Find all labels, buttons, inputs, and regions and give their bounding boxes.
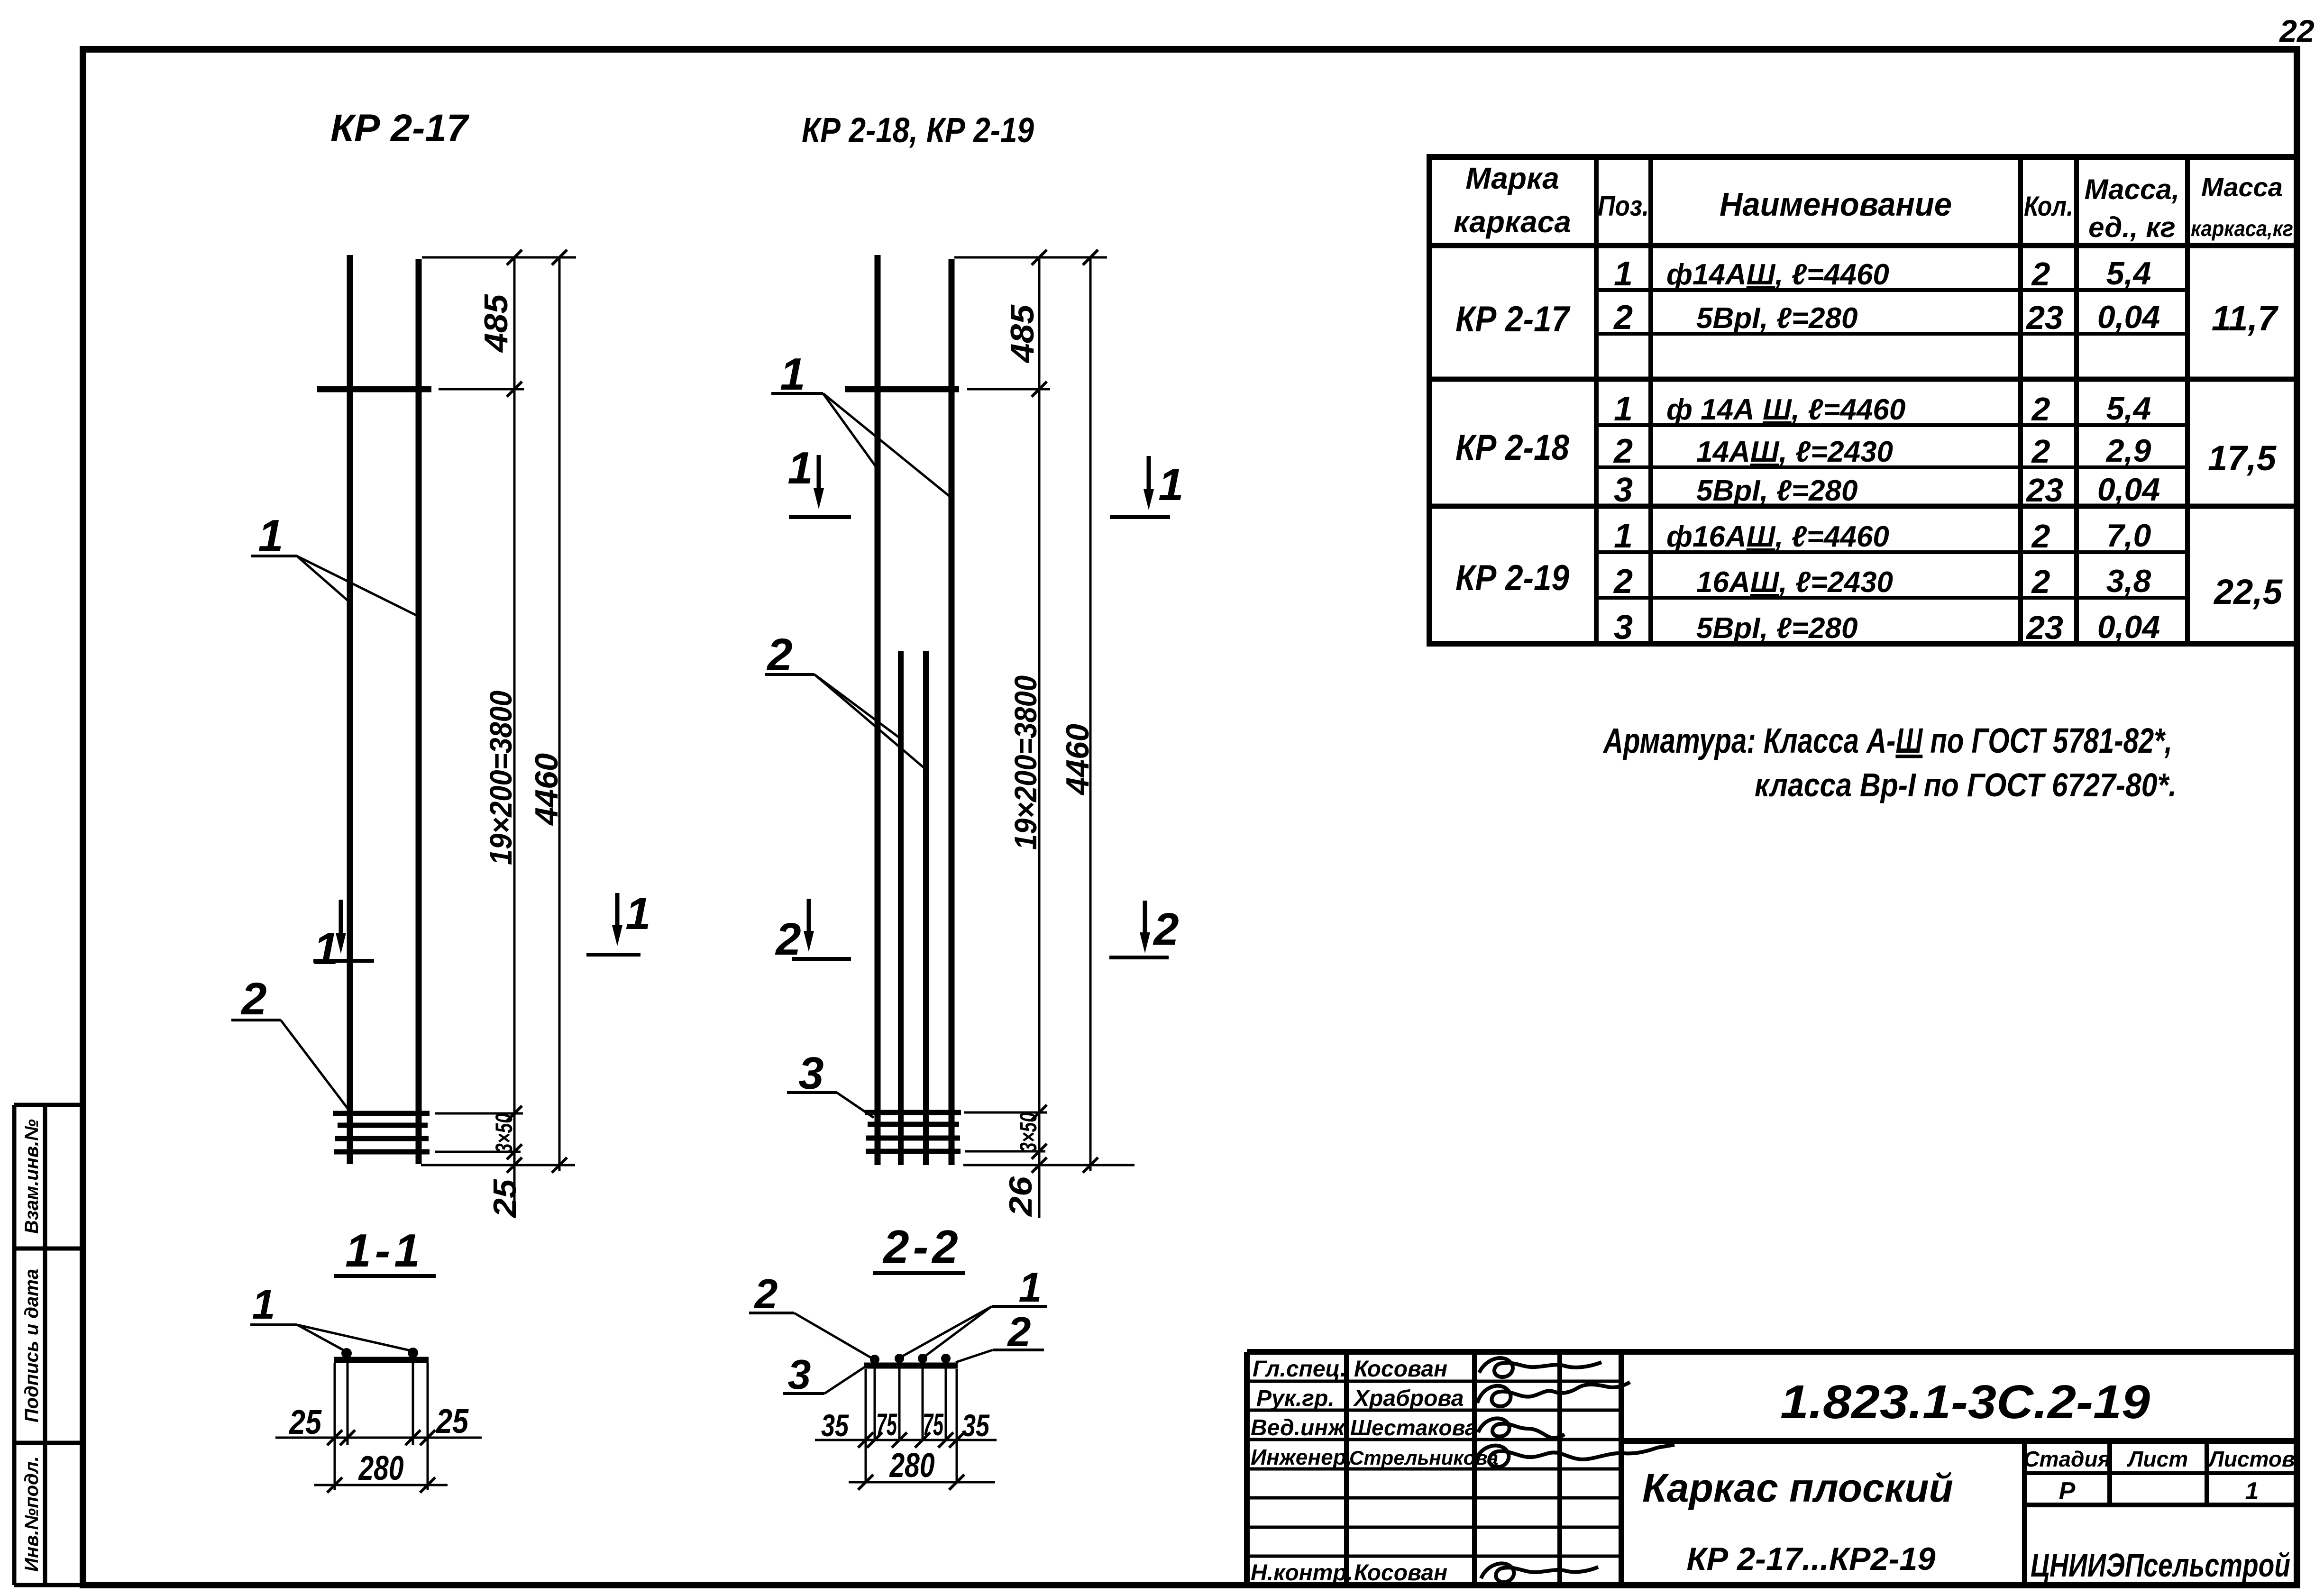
section 1-1 leader 1	[250, 1281, 412, 1352]
bottom cross wires pos2	[333, 1113, 430, 1152]
svg-text:ф16АШ, ℓ=4460: ф16АШ, ℓ=4460	[1666, 520, 1889, 553]
svg-text:0,04: 0,04	[2097, 299, 2160, 335]
section mark 1 right	[586, 888, 651, 955]
svg-text:1: 1	[258, 510, 283, 561]
label 1-1	[334, 1224, 436, 1276]
svg-text:3×50: 3×50	[1015, 1112, 1042, 1152]
svg-text:1: 1	[780, 349, 805, 400]
svg-text:КР 2-17...КР2-19: КР 2-17...КР2-19	[1687, 1541, 1936, 1577]
table headers	[1454, 161, 2293, 243]
svg-text:3: 3	[788, 1351, 811, 1398]
section 2-2 dim line 280	[849, 1447, 995, 1490]
leader 2	[231, 974, 352, 1114]
section mark 2 left	[775, 899, 851, 965]
section 2-2 cross wire	[864, 1363, 958, 1369]
svg-text:2: 2	[1613, 432, 1633, 470]
svg-text:2-2: 2-2	[882, 1221, 962, 1273]
svg-text:ед., кг: ед., кг	[2088, 211, 2176, 243]
extension lines	[954, 257, 1135, 1165]
section 2-2 leader 2 top left	[749, 1270, 872, 1358]
svg-text:ЦНИИЭПсельстрой: ЦНИИЭПсельстрой	[2031, 1547, 2290, 1584]
section mark 1 left	[787, 443, 851, 517]
svg-text:2: 2	[1613, 563, 1633, 601]
top cross wire at 485	[317, 386, 431, 392]
svg-text:Косован: Косован	[1354, 1357, 1447, 1382]
svg-text:2: 2	[2031, 391, 2050, 428]
svg-text:5,4: 5,4	[2106, 255, 2151, 292]
svg-text:2: 2	[1153, 904, 1179, 955]
svg-text:0,04: 0,04	[2097, 609, 2160, 645]
svg-text:Р: Р	[2059, 1477, 2076, 1505]
dimension line 2 overall	[1089, 257, 1092, 1171]
svg-text:19×200=3800: 19×200=3800	[1008, 675, 1043, 850]
svg-text:каркаса,кг: каркаса,кг	[2191, 216, 2293, 241]
svg-text:25: 25	[435, 1403, 469, 1440]
svg-text:25: 25	[487, 1179, 523, 1218]
section 1-1 dim line 280	[314, 1449, 448, 1493]
rebar pos1 right bar	[949, 259, 955, 1165]
svg-text:Взам.инв.№: Взам.инв.№	[21, 1119, 42, 1234]
svg-text:Шестакова: Шестакова	[1350, 1415, 1477, 1440]
svg-text:4460: 4460	[1060, 724, 1096, 796]
svg-text:2: 2	[2031, 518, 2050, 555]
section 2-2 leader 2 right	[956, 1308, 1044, 1362]
svg-text:КР 2-18, КР 2-19: КР 2-18, КР 2-19	[802, 110, 1034, 150]
svg-text:5,4: 5,4	[2106, 391, 2151, 427]
svg-text:ф 14А Ш, ℓ=4460: ф 14А Ш, ℓ=4460	[1666, 393, 1905, 426]
dim text 26	[1003, 1176, 1039, 1218]
svg-text:класса Вр-I по ГОСТ 6727-80*.: класса Вр-I по ГОСТ 6727-80*.	[1755, 766, 2177, 803]
mark KP2-17 block	[1455, 255, 2279, 339]
svg-text:3,8: 3,8	[2106, 563, 2151, 599]
leader 3	[787, 1048, 874, 1118]
dimension line 2 overall	[558, 257, 561, 1171]
section 1-1 bar dots	[341, 1348, 418, 1358]
stamp row ved.inzh	[1251, 1415, 1565, 1440]
mark KP2-19 block	[1455, 517, 2283, 647]
svg-text:Марка: Марка	[1465, 161, 1559, 195]
svg-text:35: 35	[821, 1408, 849, 1443]
svg-text:19×200=3800: 19×200=3800	[483, 691, 518, 865]
svg-text:1: 1	[2245, 1477, 2259, 1505]
svg-text:Масса: Масса	[2201, 172, 2283, 202]
svg-text:Косован: Косован	[1354, 1560, 1447, 1586]
dim text 3x50	[491, 1113, 517, 1153]
svg-text:ф14АШ, ℓ=4460: ф14АШ, ℓ=4460	[1666, 258, 1889, 291]
svg-text:1: 1	[1019, 1264, 1042, 1311]
svg-text:каркаса: каркаса	[1454, 205, 1571, 239]
dim text 3x50	[1015, 1112, 1042, 1152]
svg-text:Гл.спец.: Гл.спец.	[1253, 1357, 1346, 1382]
bottom cross wires pos3	[865, 1112, 961, 1151]
title block grid	[1247, 1352, 2297, 1585]
svg-text:1: 1	[252, 1281, 275, 1328]
document number	[1780, 1376, 2150, 1429]
section 1-1 cross wire	[334, 1357, 429, 1363]
dim text 25	[487, 1179, 523, 1218]
svg-text:Храброва: Храброва	[1353, 1386, 1464, 1411]
svg-text:1: 1	[1614, 255, 1633, 293]
svg-text:485: 485	[1004, 304, 1041, 364]
page number 22	[2278, 13, 2315, 48]
section 1-1 dim line 25/25	[275, 1403, 482, 1445]
svg-text:5ВрI, ℓ=280: 5ВрI, ℓ=280	[1696, 302, 1857, 335]
svg-text:2,9: 2,9	[2105, 433, 2151, 469]
svg-text:5ВрI, ℓ=280: 5ВрI, ℓ=280	[1696, 474, 1857, 507]
svg-text:Н.контр.: Н.контр.	[1251, 1560, 1353, 1586]
section 2-2 leader 3	[783, 1351, 866, 1398]
svg-text:1.823.1-3С.2-19: 1.823.1-3С.2-19	[1780, 1376, 2150, 1429]
svg-text:2: 2	[1007, 1308, 1031, 1355]
svg-text:7,0: 7,0	[2106, 518, 2151, 554]
svg-text:Стадия: Стадия	[2023, 1447, 2110, 1471]
svg-text:17,5: 17,5	[2208, 438, 2277, 478]
section 2-2 bar dots	[870, 1354, 951, 1364]
dimension ticks	[507, 250, 567, 1173]
left margin strip	[14, 1105, 83, 1585]
extension lines	[421, 257, 576, 1165]
svg-text:35: 35	[962, 1408, 990, 1443]
dimension line 1	[513, 257, 516, 1218]
svg-text:Лист: Лист	[2127, 1447, 2188, 1471]
dim text 4460	[529, 753, 565, 826]
svg-text:3: 3	[798, 1048, 823, 1099]
rebar pos1 left bar	[875, 255, 881, 1165]
svg-text:2: 2	[775, 914, 801, 965]
rebar pos1 left bar	[347, 255, 353, 1164]
svg-text:5ВрI, ℓ=280: 5ВрI, ℓ=280	[1696, 612, 1857, 645]
dim text 485	[477, 294, 514, 353]
svg-text:22,5: 22,5	[2213, 572, 2283, 611]
leader 2	[765, 629, 927, 770]
svg-text:280: 280	[358, 1449, 404, 1487]
section 2-2 extension lines	[866, 1365, 957, 1482]
svg-text:КР 2-17: КР 2-17	[1455, 299, 1571, 339]
stamp row n.kontr	[1251, 1560, 1598, 1586]
leader 1	[251, 510, 416, 615]
svg-text:2: 2	[1613, 299, 1633, 337]
svg-text:2: 2	[754, 1270, 778, 1317]
svg-text:КР 2-18: КР 2-18	[1455, 428, 1570, 468]
svg-text:14АШ, ℓ=2430: 14АШ, ℓ=2430	[1696, 436, 1893, 468]
svg-text:3: 3	[1614, 471, 1633, 509]
svg-text:1: 1	[1614, 390, 1633, 428]
svg-text:1: 1	[625, 888, 650, 939]
stadia list listov	[2023, 1447, 2295, 1505]
svg-text:11,7: 11,7	[2212, 299, 2279, 338]
dim text 19x200=3800	[1008, 675, 1043, 850]
stamp row gl.spec	[1253, 1357, 1601, 1382]
svg-text:23: 23	[2025, 299, 2063, 336]
svg-text:Поз.: Поз.	[1598, 190, 1649, 222]
svg-text:КР 2-17: КР 2-17	[330, 107, 469, 150]
svg-text:3×50: 3×50	[491, 1113, 517, 1153]
svg-text:Каркас плоский: Каркас плоский	[1642, 1466, 1953, 1510]
section mark 1 right	[1110, 456, 1184, 517]
svg-text:1-1: 1-1	[345, 1224, 424, 1276]
rebar pos2 middle bar B	[923, 651, 929, 1165]
dim text 19x200=3800	[483, 691, 518, 865]
dimension ticks	[1032, 250, 1098, 1173]
section mark 2 right	[1109, 901, 1179, 957]
svg-text:1: 1	[787, 443, 813, 493]
svg-text:Наименование: Наименование	[1720, 186, 1952, 223]
svg-text:1: 1	[313, 923, 339, 974]
svg-text:Листов: Листов	[2207, 1447, 2295, 1471]
svg-text:КР 2-19: КР 2-19	[1455, 558, 1569, 598]
dimension line 1	[1038, 257, 1041, 1218]
rebar pos1 right bar	[416, 259, 422, 1164]
mark KP2-18 block	[1455, 390, 2277, 509]
label 2-2	[873, 1221, 965, 1273]
svg-text:Вед.инж.: Вед.инж.	[1251, 1415, 1351, 1440]
svg-text:75: 75	[923, 1407, 944, 1442]
svg-text:Инв.№подл.: Инв.№подл.	[21, 1456, 42, 1572]
svg-text:Кол.: Кол.	[2024, 191, 2073, 222]
table grid	[1427, 157, 2297, 644]
svg-text:485: 485	[477, 294, 514, 353]
leader 1	[771, 349, 952, 499]
top cross wire at 485	[845, 386, 959, 392]
svg-text:0,04: 0,04	[2097, 472, 2160, 508]
svg-text:23: 23	[2025, 609, 2063, 646]
section mark 1 left	[313, 900, 374, 974]
dim text 485	[1004, 304, 1041, 364]
section 2-2 dim line 35/75/75/35	[815, 1407, 997, 1448]
svg-text:75: 75	[876, 1407, 897, 1442]
svg-text:2: 2	[2031, 433, 2050, 470]
svg-text:Подпись и дата: Подпись и дата	[21, 1269, 42, 1422]
svg-text:2: 2	[240, 974, 266, 1024]
organization	[2031, 1547, 2290, 1584]
svg-text:Инженер.: Инженер.	[1251, 1445, 1353, 1469]
title KP2-18, KP2-19	[802, 110, 1034, 150]
rebar pos2 middle bar A	[898, 651, 904, 1165]
svg-text:25: 25	[288, 1404, 322, 1441]
stamp row ruk.gr	[1256, 1382, 1630, 1411]
svg-text:2: 2	[766, 629, 792, 680]
stamp row inzhener	[1251, 1445, 1674, 1469]
section 2-2 leader 1 top right	[902, 1264, 1047, 1357]
svg-text:2: 2	[2031, 255, 2050, 292]
svg-text:280: 280	[889, 1447, 935, 1485]
svg-text:3: 3	[1614, 609, 1633, 647]
drawing title	[1642, 1466, 1953, 1577]
svg-text:4460: 4460	[529, 753, 565, 826]
svg-text:16АШ, ℓ=2430: 16АШ, ℓ=2430	[1696, 566, 1893, 599]
svg-text:26: 26	[1003, 1176, 1039, 1218]
svg-text:Рук.гр.: Рук.гр.	[1256, 1386, 1335, 1411]
svg-text:1: 1	[1158, 459, 1183, 510]
svg-text:23: 23	[2025, 472, 2063, 509]
svg-text:Масса,: Масса,	[2085, 173, 2180, 205]
svg-text:2: 2	[2031, 563, 2050, 600]
dim text 4460	[1060, 724, 1096, 796]
svg-text:Арматура: Класса А-Ш по ГОСТ 5: Арматура: Класса А-Ш по ГОСТ 5781-82*,	[1602, 721, 2172, 760]
title KP2-17	[330, 107, 469, 150]
svg-text:1: 1	[1614, 517, 1633, 555]
section 1-1 extension lines	[335, 1363, 428, 1490]
svg-text:22: 22	[2278, 13, 2315, 48]
